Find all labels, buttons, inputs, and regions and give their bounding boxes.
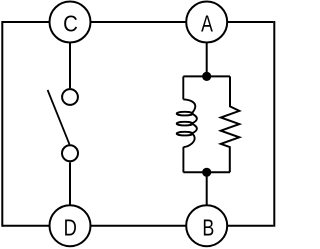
wire bottom-middle (node D to node B) [91, 225, 187, 227]
svg-text:C: C [63, 10, 78, 37]
svg-text:D: D [64, 216, 77, 242]
switch S1 (open) [48, 89, 78, 161]
wire right edge vertical [273, 21, 275, 227]
wire switch bottom terminal to D [69, 162, 71, 205]
wire A to top junction [206, 43, 208, 77]
wire top bar of parallel branch [183, 75, 230, 77]
node A [186, 2, 227, 43]
svg-text:A: A [201, 11, 213, 37]
wire bottom bar of parallel branch [183, 171, 230, 173]
wire top-middle (node C to node A) [91, 21, 187, 23]
wire left edge vertical [1, 21, 3, 227]
wire bottom-right (node B to right edge) [227, 225, 273, 227]
svg-text:B: B [202, 215, 214, 241]
wire C to switch top terminal [69, 43, 71, 89]
wire top-left (left edge to node C) [2, 21, 49, 23]
node D [50, 205, 91, 246]
node C [50, 2, 91, 43]
junction dot top [202, 72, 211, 81]
junction dot bottom [202, 168, 211, 177]
inductor L1 [177, 76, 197, 172]
wire top-right (node A to right edge) [227, 21, 273, 23]
node B [186, 205, 227, 246]
wire bottom junction to B [206, 172, 208, 205]
resistor R1 [221, 76, 240, 172]
wire bottom-left (left edge to node D) [2, 225, 49, 227]
